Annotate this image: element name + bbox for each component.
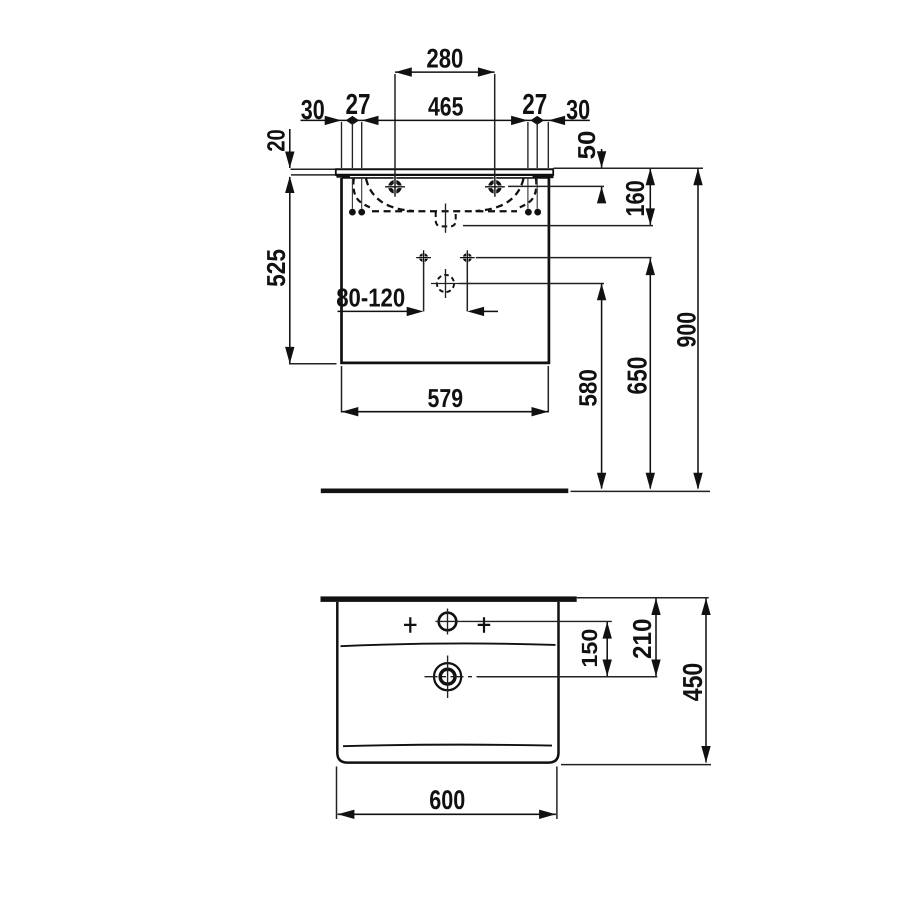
basin dashed right inner curve — [516, 179, 536, 209]
dim 80-120 — [423, 263, 425, 312]
svg-text:160: 160 — [620, 180, 650, 217]
faucet hole left — [385, 177, 405, 197]
dim 150 — [606, 622, 608, 676]
right side extension lines — [554, 167, 704, 169]
svg-text:580: 580 — [575, 369, 603, 407]
basin dashed flat bottom — [372, 210, 517, 212]
countertop left lip — [336, 175, 350, 178]
dim 50 — [601, 149, 603, 168]
svg-text:210: 210 — [627, 619, 657, 660]
dim 600 — [338, 813, 556, 815]
extension lines bottom drawing — [461, 620, 612, 622]
dim 579 — [341, 366, 343, 413]
mounting hole left — [416, 250, 431, 265]
svg-text:465: 465 — [428, 92, 464, 122]
back inner curve — [343, 745, 552, 747]
drain outer circle — [434, 663, 461, 690]
cabinet top edge — [342, 177, 549, 179]
dim line 30/27/465 — [301, 119, 590, 121]
svg-text:27: 27 — [346, 89, 371, 121]
faucet circle — [439, 613, 457, 631]
svg-text:150: 150 — [577, 629, 602, 668]
basin dashed right outer curve — [476, 179, 524, 212]
overflow dots — [349, 209, 356, 216]
svg-text:30: 30 — [566, 94, 590, 125]
basin dashed left outer curve — [366, 179, 414, 212]
drain inner ring — [440, 669, 455, 684]
dim 210 — [655, 599, 657, 677]
dim 900 — [697, 169, 699, 489]
dim 650 — [649, 259, 651, 489]
svg-text:600: 600 — [429, 785, 465, 815]
svg-text:30: 30 — [301, 94, 325, 125]
floor line — [321, 488, 569, 493]
svg-text:900: 900 — [672, 312, 702, 348]
basin dashed left inner curve — [353, 179, 373, 209]
dim 580 — [601, 284, 603, 489]
plus right — [478, 617, 491, 633]
countertop right lip — [533, 175, 554, 178]
plus left — [404, 617, 417, 633]
svg-text:650: 650 — [621, 357, 652, 395]
dim 20 — [289, 129, 291, 168]
dim 450 — [705, 599, 707, 763]
basin outline — [337, 602, 558, 763]
faucet hole right — [485, 177, 505, 197]
wall bar — [321, 596, 577, 602]
dim 160 — [649, 169, 651, 225]
siphon dashed circle — [437, 275, 454, 292]
front inner curve — [341, 644, 556, 647]
svg-text:280: 280 — [426, 43, 463, 73]
cabinet box — [342, 178, 549, 363]
dim 280 — [395, 71, 495, 73]
drain centerline — [445, 204, 447, 233]
svg-text:80-120: 80-120 — [336, 282, 405, 312]
svg-text:20: 20 — [262, 129, 290, 152]
svg-text:50: 50 — [574, 131, 601, 160]
svg-text:450: 450 — [677, 663, 708, 702]
drain pocket dashed — [436, 212, 456, 227]
mounting hole right — [460, 250, 475, 265]
dim 525 bottom arrow — [285, 347, 294, 364]
svg-text:27: 27 — [522, 89, 547, 121]
svg-text:579: 579 — [428, 383, 464, 413]
svg-text:525: 525 — [261, 249, 291, 287]
countertop slab — [336, 168, 554, 170]
